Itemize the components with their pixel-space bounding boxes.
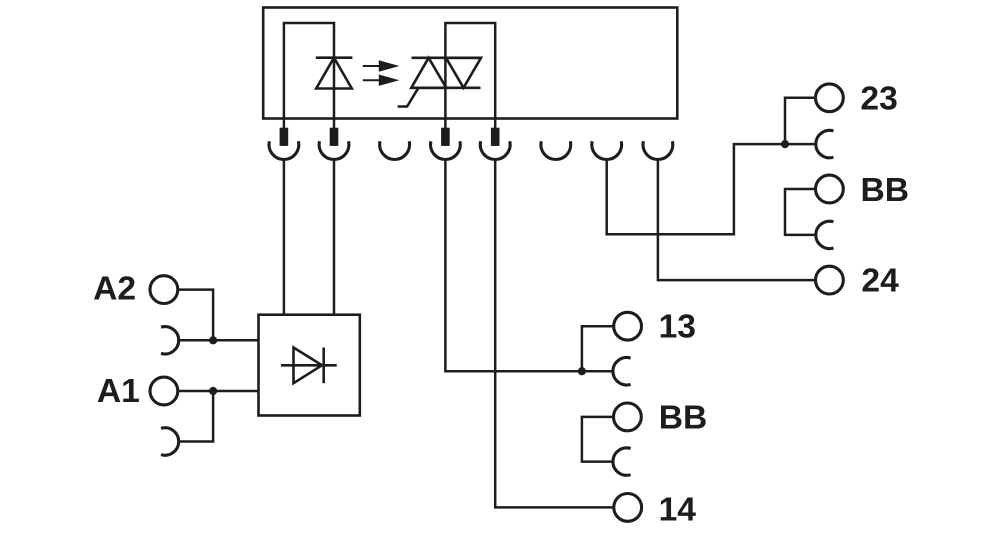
contact arc A2 bbox=[161, 327, 179, 354]
svg-text:24: 24 bbox=[861, 263, 899, 300]
junction 23 bbox=[781, 140, 789, 148]
svg-text:13: 13 bbox=[659, 309, 696, 346]
wire junction to circle 23 bbox=[785, 98, 816, 144]
wire contact8 to terminal 24 bbox=[658, 159, 816, 280]
contact arc 13 bbox=[613, 358, 631, 385]
wire junction to circle 13 bbox=[582, 326, 614, 371]
svg-text:BB: BB bbox=[861, 172, 910, 209]
wire contact7 to terminal 23 bbox=[607, 144, 816, 234]
LED D1 cathode bar bbox=[316, 56, 353, 59]
terminal circle A1 bbox=[150, 377, 178, 405]
contact arc BB right bbox=[816, 221, 834, 248]
wire contact1 to rectifier bbox=[283, 159, 286, 315]
svg-text:A2: A2 bbox=[93, 270, 136, 307]
wire A1 circle to rectifier bbox=[178, 390, 259, 393]
contact arc A1 bbox=[161, 428, 179, 455]
rectifier diode line bbox=[281, 364, 337, 367]
terminal circle BB right bbox=[816, 175, 844, 203]
pin plug 4 bbox=[491, 128, 500, 146]
socket contact 7 bbox=[592, 141, 622, 159]
wire A1 junction to arc bbox=[179, 391, 213, 442]
rectifier box B1 bbox=[259, 315, 360, 416]
socket contact 1 bbox=[269, 141, 299, 159]
wire LED loop bbox=[284, 23, 334, 146]
terminal circle 24 bbox=[816, 266, 844, 294]
terminal circle 23 bbox=[816, 84, 844, 112]
svg-text:BB: BB bbox=[659, 400, 708, 437]
contact arc BB mid bbox=[613, 448, 631, 475]
socket contact 8 bbox=[643, 141, 673, 159]
optocoupler arrow 1 tail bbox=[363, 65, 381, 67]
terminal circle 14 bbox=[614, 494, 642, 522]
optocoupler arrow 2 tail bbox=[363, 79, 381, 81]
triac Q1 bottom bar bbox=[412, 87, 481, 90]
junction A2 bbox=[209, 336, 217, 344]
socket contact 4 bbox=[431, 141, 461, 159]
triac Q1 gate bbox=[398, 88, 419, 106]
module box U1 bbox=[263, 8, 677, 119]
junction A1 bbox=[209, 387, 217, 395]
pin plug 1 bbox=[280, 128, 289, 146]
wire A2 arc to rectifier bbox=[179, 339, 259, 342]
optocoupler arrow 1 head bbox=[379, 60, 400, 71]
socket contact 5 bbox=[480, 141, 510, 159]
svg-text:23: 23 bbox=[860, 81, 897, 118]
triac Q1 right triangle bbox=[446, 58, 481, 88]
wire contact2 to rectifier bbox=[333, 159, 336, 315]
socket contact 6 bbox=[541, 141, 571, 159]
pin plug 3 bbox=[441, 128, 450, 146]
terminal circle 13 bbox=[614, 312, 642, 340]
svg-text:14: 14 bbox=[659, 491, 697, 528]
junction 13 bbox=[578, 367, 586, 375]
socket contact 3 bbox=[380, 141, 410, 159]
optocoupler arrow 2 head bbox=[379, 75, 400, 86]
rectifier diode cathode bar bbox=[322, 348, 325, 384]
rectifier diode triangle bbox=[294, 348, 323, 384]
contact arc 23 bbox=[816, 130, 834, 157]
wire BB mid bracket bbox=[582, 417, 614, 462]
LED D1 triangle bbox=[316, 58, 352, 89]
socket contact 2 bbox=[319, 141, 349, 159]
wire contact4 to terminal 13 bbox=[445, 159, 613, 371]
terminal circle A2 bbox=[150, 276, 178, 304]
triac Q1 top bar bbox=[412, 56, 482, 59]
wire A2 circle to junction bbox=[178, 290, 213, 341]
pin plug 2 bbox=[330, 128, 339, 146]
terminal circle BB mid bbox=[614, 403, 642, 431]
svg-text:A1: A1 bbox=[97, 373, 140, 410]
wire contact5 to terminal 14 bbox=[495, 159, 614, 507]
wire BB right bracket bbox=[785, 189, 816, 235]
wire triac loop bbox=[445, 23, 495, 146]
triac Q1 left triangle bbox=[411, 58, 446, 88]
